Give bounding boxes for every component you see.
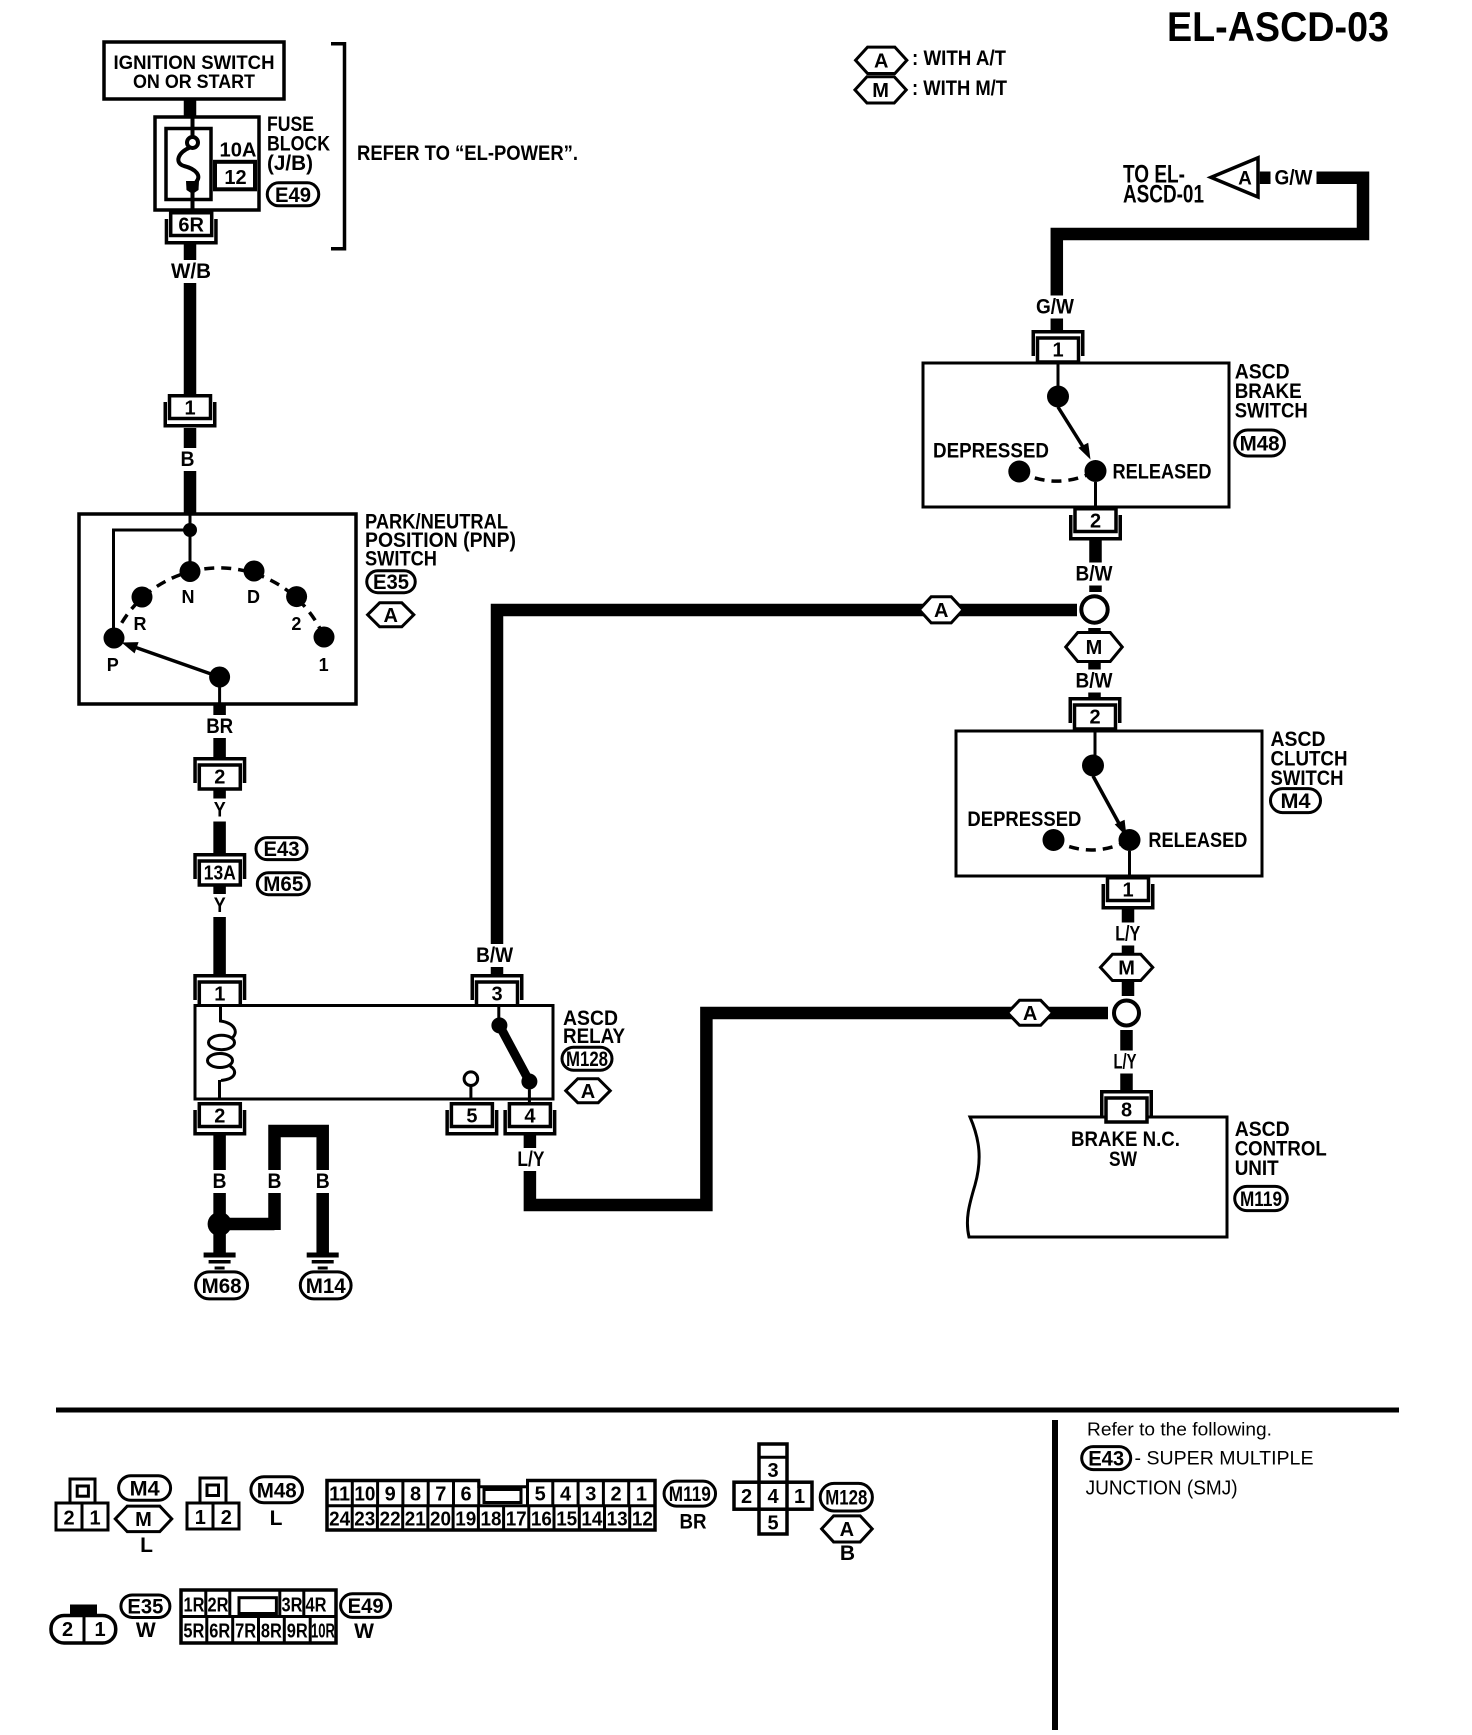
svg-text:13A: 13A (204, 863, 236, 885)
svg-text:M65: M65 (263, 873, 303, 896)
svg-text:SWITCH: SWITCH (365, 548, 437, 571)
svg-text:M4: M4 (1281, 790, 1311, 813)
svg-text:2: 2 (214, 767, 225, 789)
svg-text:1: 1 (794, 1486, 805, 1508)
svg-text:3R: 3R (282, 1595, 303, 1617)
svg-text:2R: 2R (208, 1595, 229, 1617)
svg-text:L/Y: L/Y (1114, 1051, 1137, 1074)
svg-text:M: M (1086, 637, 1103, 659)
svg-text:ASCD-01: ASCD-01 (1123, 181, 1204, 209)
svg-text:9R: 9R (287, 1621, 308, 1643)
svg-text:RELAY: RELAY (563, 1025, 625, 1048)
svg-text:4R: 4R (306, 1595, 327, 1617)
svg-text:B: B (268, 1170, 282, 1193)
svg-text:A: A (840, 1519, 854, 1541)
svg-text:A: A (581, 1081, 595, 1103)
svg-text:18: 18 (481, 1509, 502, 1531)
svg-text:D: D (247, 587, 260, 607)
svg-text:G/W: G/W (1275, 167, 1313, 190)
svg-text:19: 19 (455, 1509, 476, 1531)
svg-text:M48: M48 (257, 1479, 297, 1502)
svg-text:EL-ASCD-03: EL-ASCD-03 (1167, 3, 1389, 50)
svg-text:21: 21 (405, 1509, 426, 1531)
svg-text:6: 6 (461, 1484, 472, 1506)
svg-text:R: R (134, 614, 147, 634)
svg-text:6R: 6R (178, 215, 204, 237)
svg-text:2: 2 (291, 614, 301, 634)
svg-text:6R: 6R (209, 1621, 230, 1643)
svg-text:1: 1 (1052, 340, 1063, 362)
svg-text:M: M (872, 80, 889, 102)
svg-text:7R: 7R (235, 1621, 256, 1643)
svg-text:B/W: B/W (1076, 563, 1113, 586)
svg-text:SWITCH: SWITCH (1235, 400, 1308, 423)
svg-text:A: A (383, 605, 397, 627)
svg-text:2: 2 (63, 1508, 74, 1530)
svg-text:3: 3 (767, 1460, 778, 1482)
svg-text:1: 1 (1122, 880, 1133, 902)
svg-text:E35: E35 (127, 1596, 163, 1619)
svg-text:W/B: W/B (171, 260, 211, 283)
svg-text:B: B (840, 1542, 855, 1565)
svg-text:1: 1 (319, 655, 329, 675)
svg-text:G/W: G/W (1036, 296, 1074, 319)
svg-text:E43: E43 (264, 838, 300, 861)
svg-text:11: 11 (329, 1484, 350, 1506)
svg-text:4: 4 (767, 1486, 779, 1508)
svg-text:8: 8 (1121, 1100, 1132, 1122)
svg-text:A: A (874, 51, 888, 73)
svg-text:E35: E35 (373, 571, 409, 594)
svg-text:: WITH M/T: : WITH M/T (912, 77, 1007, 100)
svg-text:8: 8 (410, 1484, 421, 1506)
svg-text:9: 9 (385, 1484, 396, 1506)
svg-text:Y: Y (214, 799, 226, 822)
svg-text:L/Y: L/Y (1115, 923, 1140, 946)
svg-text:1: 1 (184, 398, 195, 420)
svg-text:2: 2 (741, 1486, 752, 1508)
svg-text:SWITCH: SWITCH (1271, 767, 1344, 790)
svg-text:E49: E49 (275, 184, 311, 207)
svg-text:M14: M14 (306, 1275, 346, 1298)
svg-text:M119: M119 (669, 1483, 711, 1506)
svg-text:N: N (182, 587, 195, 607)
svg-text:M: M (1118, 958, 1135, 980)
svg-text:22: 22 (380, 1509, 401, 1531)
svg-text:E49: E49 (348, 1595, 384, 1618)
svg-text:5R: 5R (183, 1621, 204, 1643)
svg-text:1: 1 (89, 1508, 100, 1530)
svg-text:SW: SW (1109, 1148, 1137, 1171)
svg-text:- SUPER MULTIPLE: - SUPER MULTIPLE (1135, 1449, 1314, 1470)
svg-text:B: B (213, 1170, 227, 1193)
svg-text:5: 5 (535, 1484, 546, 1506)
svg-text:M128: M128 (825, 1487, 867, 1510)
svg-text:Y: Y (214, 894, 226, 917)
svg-text:DEPRESSED: DEPRESSED (933, 440, 1049, 463)
svg-text:10R: 10R (311, 1621, 335, 1643)
svg-text:B: B (181, 448, 195, 471)
svg-text:B: B (316, 1170, 330, 1193)
svg-text:4: 4 (524, 1106, 536, 1128)
svg-text:L: L (140, 1534, 153, 1557)
svg-text:24: 24 (329, 1509, 351, 1531)
svg-text:E43: E43 (1088, 1448, 1124, 1471)
svg-text:BR: BR (206, 715, 233, 738)
svg-text:RELEASED: RELEASED (1113, 461, 1212, 484)
svg-text:DEPRESSED: DEPRESSED (967, 808, 1081, 831)
svg-text:P: P (107, 655, 119, 675)
svg-text:: WITH A/T: : WITH A/T (912, 47, 1006, 70)
svg-text:M128: M128 (566, 1048, 608, 1071)
svg-text:3: 3 (491, 984, 502, 1006)
svg-text:23: 23 (354, 1509, 375, 1531)
svg-text:7: 7 (435, 1484, 446, 1506)
svg-text:5: 5 (466, 1106, 477, 1128)
svg-text:M: M (135, 1509, 152, 1531)
svg-text:2: 2 (1090, 511, 1101, 533)
svg-text:M119: M119 (1240, 1188, 1282, 1211)
svg-text:5: 5 (767, 1513, 778, 1535)
svg-text:B/W: B/W (476, 944, 513, 967)
svg-text:A: A (934, 600, 948, 622)
svg-text:REFER TO “EL-POWER”.: REFER TO “EL-POWER”. (357, 142, 578, 165)
svg-text:2: 2 (611, 1484, 622, 1506)
svg-text:1R: 1R (184, 1595, 205, 1617)
svg-text:(J/B): (J/B) (267, 152, 313, 175)
svg-text:1: 1 (195, 1507, 206, 1529)
svg-text:3: 3 (585, 1484, 596, 1506)
svg-text:13: 13 (607, 1509, 628, 1531)
svg-text:A: A (1023, 1003, 1037, 1025)
svg-text:JUNCTION (SMJ): JUNCTION (SMJ) (1086, 1478, 1238, 1500)
svg-text:M48: M48 (1240, 433, 1280, 456)
svg-text:BR: BR (680, 1511, 707, 1534)
svg-text:8R: 8R (261, 1621, 282, 1643)
svg-text:14: 14 (581, 1509, 603, 1531)
svg-text:L/Y: L/Y (517, 1148, 544, 1171)
svg-text:M4: M4 (130, 1478, 160, 1501)
svg-text:2: 2 (1089, 707, 1100, 729)
svg-text:ON OR START: ON OR START (133, 72, 255, 93)
svg-text:A: A (1238, 169, 1252, 190)
svg-text:10A: 10A (220, 140, 257, 162)
svg-text:20: 20 (430, 1509, 451, 1531)
svg-text:4: 4 (560, 1484, 572, 1506)
svg-text:12: 12 (224, 167, 246, 189)
svg-text:2: 2 (221, 1507, 232, 1529)
svg-text:UNIT: UNIT (1235, 1157, 1279, 1180)
svg-text:15: 15 (556, 1509, 577, 1531)
svg-text:2: 2 (214, 1106, 225, 1128)
svg-text:1: 1 (94, 1619, 105, 1641)
svg-text:17: 17 (506, 1509, 527, 1531)
svg-text:1: 1 (214, 984, 225, 1006)
svg-text:16: 16 (531, 1509, 552, 1531)
svg-text:W: W (354, 1620, 374, 1643)
svg-text:RELEASED: RELEASED (1148, 829, 1247, 852)
svg-text:1: 1 (636, 1484, 647, 1506)
svg-text:M68: M68 (202, 1275, 242, 1298)
svg-text:2: 2 (62, 1619, 73, 1641)
svg-text:L: L (270, 1507, 283, 1530)
svg-text:B/W: B/W (1076, 670, 1113, 693)
svg-text:12: 12 (632, 1509, 653, 1531)
svg-text:W: W (136, 1619, 156, 1642)
svg-text:Refer to the following.: Refer to the following. (1087, 1420, 1272, 1440)
svg-text:IGNITION SWITCH: IGNITION SWITCH (114, 53, 275, 74)
svg-text:10: 10 (354, 1484, 375, 1506)
